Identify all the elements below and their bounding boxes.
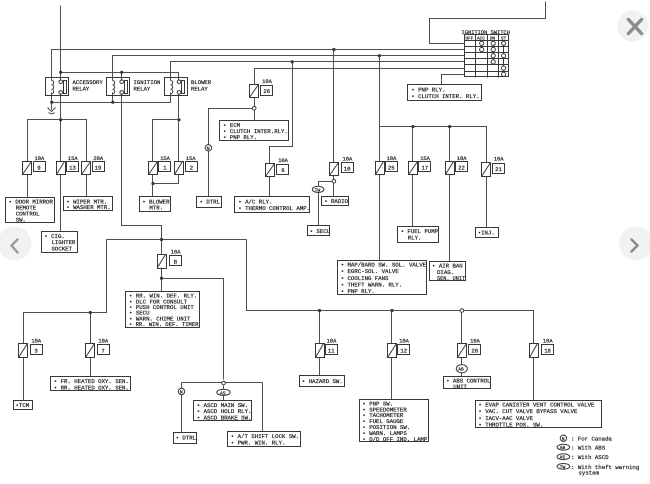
wire to AT shift lock box (262, 383, 264, 432)
svg-text:13: 13 (69, 165, 76, 172)
box blower motor (140, 197, 171, 212)
svg-text:• DTRL: • DTRL (176, 435, 197, 442)
svg-text:10A: 10A (31, 339, 41, 345)
symbol AB abs (456, 365, 467, 373)
legend TW theft warning (557, 464, 570, 470)
fuse F7 10A (86, 344, 110, 358)
wire fuse17 drop (412, 127, 414, 162)
svg-text:15A: 15A (68, 156, 78, 162)
symbol N canada on DTRL upper (205, 145, 211, 151)
wire relay coil ground bus (52, 93, 171, 103)
fuse F9 10A (23, 162, 46, 175)
box heated oxygen sensors (51, 377, 131, 391)
svg-text:10A: 10A (98, 339, 108, 345)
box map baro solenoids (338, 261, 427, 295)
svg-text:10A: 10A (387, 156, 397, 162)
wire ignition coil bottom stub (112, 93, 114, 103)
svg-text:AS: AS (560, 455, 566, 461)
svg-text:N: N (562, 436, 565, 442)
svg-text:10A: 10A (262, 79, 272, 85)
symbol TW theft warning (312, 186, 324, 192)
wire branch to SECU via TW (319, 182, 333, 226)
svg-text:• O/D OFF IND. LAMP: • O/D OFF IND. LAMP (362, 436, 427, 443)
wire main bus right leg (247, 240, 534, 344)
wire fuse17 to fuel pump box (412, 175, 414, 227)
fuse F28 10A (458, 344, 481, 358)
box ABS control unit (444, 377, 491, 389)
svg-text:• ASCD BRAKE SW.: • ASCD BRAKE SW. (197, 415, 252, 422)
fuse F26 10A (250, 85, 273, 98)
svg-text:AB: AB (560, 445, 566, 451)
box SECU (308, 226, 330, 236)
wire right fuse bus (380, 127, 487, 163)
fuse F6 10A (266, 164, 289, 177)
box cig lighter socket (42, 232, 78, 253)
svg-text:• RR. HEATED OXY. SEN.: • RR. HEATED OXY. SEN. (54, 384, 129, 391)
svg-text:9: 9 (37, 165, 40, 172)
box DTRL upper (197, 197, 222, 208)
wire fuse22 to air bag box (449, 175, 451, 262)
box AT shift lock pwr win (228, 432, 301, 447)
box meters gauges (360, 400, 429, 442)
svg-text:• DTRL: • DTRL (200, 198, 221, 205)
box AC relay thermo control (235, 197, 310, 213)
svg-text:ACC: ACC (477, 36, 485, 41)
svg-text:• THERMO CONTROL AMP.: • THERMO CONTROL AMP. (238, 205, 310, 212)
wire relay contact feed bus (61, 73, 179, 81)
svg-text:10A: 10A (327, 339, 337, 345)
relay K3 blower (165, 78, 188, 96)
svg-text:10A: 10A (494, 157, 504, 163)
svg-text:20A: 20A (93, 156, 103, 162)
svg-text:6: 6 (281, 167, 284, 174)
wire switch row6 to PNP relay box (442, 75, 465, 85)
wire C drop to fuse6 (270, 62, 293, 164)
svg-text:RELAY: RELAY (73, 86, 90, 93)
svg-text:TW: TW (315, 187, 321, 193)
svg-text:10: 10 (344, 166, 351, 173)
box fuel pump relay (398, 227, 439, 243)
wire fuse18 to evap box (533, 358, 535, 401)
svg-text:15A: 15A (420, 156, 430, 162)
legend AB abs (557, 444, 570, 450)
fuse F19 20A (82, 162, 105, 175)
wire blower contact to fuse2 (178, 94, 180, 162)
svg-text:10A: 10A (543, 339, 553, 345)
svg-text:• RR. WIN. DEF. TIMER: • RR. WIN. DEF. TIMER (129, 321, 199, 328)
svg-text:• THROTTLE POS. SW.: • THROTTLE POS. SW. (478, 421, 543, 428)
svg-text:TW: TW (560, 464, 566, 470)
fuse F21 10A (482, 163, 505, 177)
fuse F25 10A (376, 162, 398, 175)
svg-text:IGNITION SWITCH: IGNITION SWITCH (462, 30, 511, 36)
box ASCD switches (194, 401, 252, 421)
svg-text:RELAY: RELAY (191, 86, 208, 93)
wire fuseB branch to ASCD bus (162, 279, 224, 380)
svg-text:19: 19 (95, 165, 102, 172)
fuse F18 10A (530, 344, 554, 358)
svg-text:SOCKET: SOCKET (52, 245, 73, 252)
fuse F22 10A (446, 162, 468, 175)
svg-text:2: 2 (190, 165, 193, 172)
svg-text:1: 1 (163, 165, 167, 172)
svg-text:17: 17 (422, 165, 429, 172)
svg-text:•INJ.: •INJ. (478, 230, 495, 237)
open connector circles (222, 107, 464, 385)
fuse F12 10A (388, 344, 410, 358)
svg-text:11: 11 (328, 347, 335, 354)
svg-text:: With ASCD: : With ASCD (571, 454, 609, 461)
wire fuse11 to hazard box (319, 358, 321, 376)
wire main bus left leg (24, 240, 107, 344)
svg-text:•TCM: •TCM (16, 402, 30, 409)
svg-text:AS: AS (220, 390, 226, 396)
svg-text:10A: 10A (470, 339, 480, 345)
wire fuse1-2 join to blower motor box (153, 175, 179, 197)
wire fuse28 drop (461, 313, 463, 344)
box radio (322, 197, 349, 206)
wire to ASCD switches via AS (223, 386, 225, 401)
wire main bus upper (107, 239, 247, 241)
box door mirror remote control sw (6, 198, 55, 223)
svg-text:12: 12 (400, 347, 407, 354)
close button (617, 11, 648, 42)
ignition switch S1 table (465, 35, 509, 78)
svg-text:28: 28 (471, 347, 478, 354)
wire fuse3 to TCM box (23, 358, 25, 401)
svg-text:RLY.: RLY. (408, 234, 422, 241)
svg-text:ON: ON (490, 36, 496, 41)
box PNP clutch inter relay (408, 85, 482, 101)
wire ignition relay contact top stub (121, 73, 123, 81)
wire C blower coil to switch row4 (171, 62, 465, 81)
wire fuse22 drop (449, 127, 451, 162)
box hazard sw (300, 376, 345, 387)
svg-text:UNIT: UNIT (453, 383, 467, 390)
box ECM clutch inter pnp (220, 121, 289, 141)
svg-text:SEN. UNIT: SEN. UNIT (437, 275, 466, 282)
svg-text:15A: 15A (160, 156, 170, 162)
svg-text:• PNP RLY.: • PNP RLY. (341, 288, 375, 295)
svg-text:• RADIO: • RADIO (324, 198, 348, 205)
wire fuse7 to oxygen sensor box (90, 358, 92, 377)
wire fuse7 drop (90, 313, 92, 344)
legend AS ascd (557, 454, 570, 460)
box DTRL lower (174, 433, 197, 444)
fuse F10 10A (330, 163, 354, 176)
svg-text:10A: 10A (35, 156, 45, 162)
wire B drop to right fuse bus (379, 56, 381, 162)
wire fuse bus left (28, 120, 87, 162)
svg-text:ST: ST (501, 36, 507, 41)
svg-text:25: 25 (388, 165, 395, 172)
svg-text:: For Canada: : For Canada (571, 436, 613, 443)
wire ignition contact to main bus (122, 94, 162, 255)
wire accessory coil bottom to ground (51, 93, 53, 110)
wire fuse25 to map baro box (379, 175, 381, 261)
svg-text:• HAZARD SW.: • HAZARD SW. (302, 378, 343, 385)
svg-text:• WASHER MTR.: • WASHER MTR. (66, 204, 110, 211)
wire A accessory coil to switch row2 (52, 50, 465, 81)
wire fuse12 drop (391, 311, 393, 344)
svg-text:N: N (180, 390, 183, 396)
wire branch to fuse1 (153, 120, 179, 162)
wire battery feed top right (430, 2, 546, 44)
wire A drop to fuse10 (333, 50, 335, 163)
svg-text:22: 22 (458, 165, 465, 172)
box TCM (14, 401, 33, 410)
nav arrow left (0, 227, 32, 261)
wire fuse19 to wiper box (86, 175, 88, 197)
wire fuse28 to ABS via AB (461, 358, 463, 377)
wire fuseB to consult box (161, 268, 163, 292)
svg-text:RELAY: RELAY (134, 86, 151, 93)
svg-text:3: 3 (34, 347, 37, 354)
svg-text:system: system (579, 470, 600, 477)
wire branch to DTRL via N (209, 109, 253, 197)
wire B ignition coil to switch row3 (113, 56, 465, 81)
svg-text:10A: 10A (171, 250, 181, 256)
legend N canada (560, 435, 566, 441)
svg-text:15A: 15A (186, 156, 196, 162)
symbol AS ascd (217, 389, 230, 395)
wire D fuse26 to switch row5 (255, 69, 465, 85)
box rr window defogger consult (126, 292, 200, 328)
svg-text:10A: 10A (399, 339, 409, 345)
svg-text:7: 7 (101, 347, 104, 354)
wire fuse10 to radio box (333, 176, 335, 197)
svg-text:• PNP RLY.: • PNP RLY. (223, 134, 257, 141)
box air bag diag sensor (430, 262, 466, 281)
wire accessory contact to fuse bus (60, 94, 62, 162)
fuse F1 15A (149, 162, 171, 175)
wire ASCD bus (182, 382, 263, 384)
svg-text:N: N (207, 146, 210, 152)
svg-text:SW.: SW. (16, 217, 26, 224)
svg-text:• CLUTCH INTER. RLY.: • CLUTCH INTER. RLY. (411, 93, 479, 100)
symbol N canada on DTRL lower (178, 388, 184, 394)
wire fuse9 to door mirror box (27, 175, 29, 198)
wire fuseB feed (161, 240, 163, 255)
nav arrow right (619, 227, 650, 261)
relay K2 ignition (107, 78, 130, 96)
ground arrow (48, 108, 56, 112)
svg-text:• PWR. WIN. RLY.: • PWR. WIN. RLY. (231, 439, 286, 446)
svg-text:• SECU: • SECU (310, 228, 331, 235)
svg-text:10A: 10A (457, 156, 467, 162)
fuse F2 15A (175, 162, 198, 175)
fuse F3 10A (19, 344, 43, 358)
svg-text:10A: 10A (278, 158, 288, 164)
wire fuse13 to cig lighter box (60, 175, 62, 232)
fuse F13 15A (57, 162, 79, 175)
box evap canister valves (476, 401, 602, 428)
wire fuse21 to injector box (486, 177, 488, 228)
wire fuse11 drop (319, 311, 321, 344)
wire battery feed top left (60, 6, 62, 80)
svg-text:B: B (174, 258, 178, 265)
svg-text:26: 26 (263, 88, 270, 95)
svg-text:21: 21 (495, 166, 502, 173)
svg-text:OFF: OFF (466, 36, 474, 41)
svg-text:18: 18 (544, 347, 551, 354)
fuse F17 15A (409, 162, 431, 175)
fuse FB 10A (158, 255, 182, 269)
box injector (476, 228, 499, 238)
svg-text:: With ABS: : With ABS (571, 445, 606, 452)
svg-text:MTR.: MTR. (149, 205, 163, 212)
wire fuse6 to AC relay box (269, 177, 271, 197)
svg-text:10A: 10A (343, 157, 353, 163)
wire fuse26 to ECM box (254, 98, 256, 121)
svg-text:AB: AB (458, 367, 464, 373)
relay K1 accessory (46, 78, 69, 96)
fuse F11 10A (316, 344, 338, 358)
box wiper washer motor (64, 197, 113, 211)
wire to DTRL via N (181, 383, 183, 433)
wire fuse12 to meter box (391, 358, 393, 400)
